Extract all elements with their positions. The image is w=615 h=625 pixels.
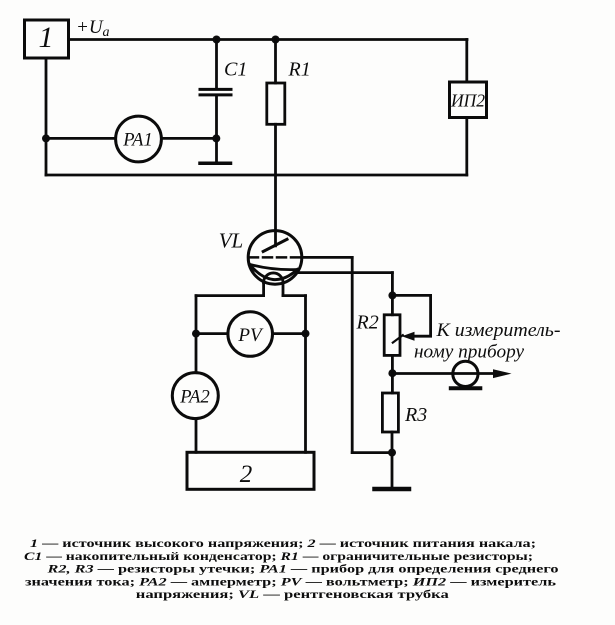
resistor R2 — [384, 315, 400, 356]
filament legs — [262, 283, 265, 296]
resistor R3 — [382, 393, 398, 432]
grid dashed line — [249, 256, 302, 259]
node R2 top — [388, 291, 396, 299]
ground stem — [391, 453, 394, 487]
cathode cup lower arc — [250, 264, 298, 279]
pedestal left horizontal — [196, 294, 264, 297]
ammeter PA2 — [172, 373, 218, 419]
svg-text:R1: R1 — [288, 59, 311, 81]
wire PV right — [273, 332, 306, 335]
wire to measuring instrument — [392, 372, 493, 375]
wire R3 bottom — [391, 432, 394, 453]
node ground — [388, 449, 396, 457]
heater right vertical — [304, 296, 307, 453]
svg-text:PA1: PA1 — [122, 131, 152, 151]
heater left vertical upper — [195, 296, 198, 373]
wire cathode right — [297, 271, 393, 274]
node C1-PA1 — [212, 134, 220, 142]
svg-text:R2: R2 — [356, 312, 379, 334]
wire PA1 right — [161, 137, 216, 140]
svg-text:1: 1 — [39, 21, 54, 54]
pedestal right horizontal — [283, 294, 306, 297]
svg-text:R2, R3 — резисторы утечки; РА1: R2, R3 — резисторы утечки; РА1 — прибор … — [46, 564, 559, 576]
svg-text:VL: VL — [219, 229, 244, 253]
svg-text:К измеритель-: К измеритель- — [435, 320, 560, 341]
arrowhead right — [493, 369, 512, 378]
svg-text:ному прибору: ному прибору — [414, 342, 525, 363]
node R2-R3 — [388, 369, 396, 377]
svg-text:PV: PV — [237, 325, 264, 346]
wire R3 top — [391, 373, 394, 393]
node R1 top — [272, 36, 280, 44]
source box 1 — [25, 20, 69, 58]
node PV left — [192, 330, 200, 338]
wire grid drop — [351, 257, 354, 452]
svg-text:2: 2 — [240, 461, 253, 488]
wire R2 bottom — [391, 355, 394, 373]
heater left vertical lower — [195, 419, 198, 453]
wire PA1 left — [46, 137, 115, 140]
svg-text:С1: С1 — [224, 59, 247, 81]
box IP2 — [450, 82, 487, 118]
node left-PA1 — [42, 134, 50, 142]
node C1 top — [213, 36, 221, 44]
wire bottom bus — [46, 174, 467, 177]
terminal bar — [451, 386, 481, 390]
resistor R1 — [274, 40, 277, 84]
svg-text:1 — источник высокого напряжен: 1 — источник высокого напряжения; 2 — ис… — [30, 538, 536, 550]
wiper arrowhead — [402, 332, 415, 341]
ammeter PA1 — [116, 116, 162, 162]
svg-text:R3: R3 — [404, 404, 427, 426]
ground bar — [375, 487, 410, 492]
svg-text:+Ua: +Ua — [76, 17, 110, 40]
cathode cup upper arc — [250, 264, 298, 269]
C1 bottom bar — [200, 162, 231, 166]
wire right drop to IP2 — [465, 40, 468, 83]
svg-text:С1 — накопительный конденсатор: С1 — накопительный конденсатор; R1 — огр… — [24, 551, 533, 563]
terminal circle — [453, 361, 478, 386]
svg-text:PA2: PA2 — [179, 388, 209, 408]
wire left vertical — [45, 58, 48, 175]
filament dome — [264, 273, 283, 283]
voltmeter PV — [228, 312, 273, 357]
capacitor C1 — [215, 40, 218, 89]
wiper slash — [393, 335, 403, 342]
wiper loop wire — [392, 295, 430, 336]
wire R2 top — [391, 295, 394, 314]
node PV right — [302, 330, 310, 338]
wire IP2 to bottom bus — [465, 118, 468, 176]
anode target — [263, 239, 287, 251]
wire grid right — [302, 256, 352, 259]
svg-text:значения тока; РА2 — амперметр: значения тока; РА2 — амперметр; PV — вол… — [25, 576, 556, 588]
wire cathode drop — [391, 273, 394, 296]
filament supply box 2 — [187, 452, 314, 489]
wire grid bottom — [352, 451, 392, 454]
wire anode — [274, 124, 277, 246]
wire PV left — [196, 332, 228, 335]
svg-text:напряжения; VL — рентгеновская: напряжения; VL — рентгеновская трубка — [136, 589, 450, 601]
x-ray tube VL — [248, 231, 302, 285]
svg-text:ИП2: ИП2 — [450, 91, 485, 111]
wire top bus — [69, 38, 468, 41]
